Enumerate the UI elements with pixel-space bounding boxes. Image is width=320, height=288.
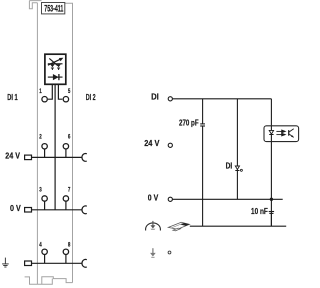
svg-text:6: 6 <box>68 134 70 141</box>
svg-text:DI: DI <box>226 161 233 171</box>
svg-text:24 V: 24 V <box>5 151 20 161</box>
capacitor C1 270pF branch <box>200 99 205 226</box>
DI LED branch <box>236 99 238 200</box>
terminal circle 5 <box>63 97 68 102</box>
0V terminal circle right <box>168 197 172 201</box>
LED symbols inside block <box>48 58 63 65</box>
field supply arrow <box>152 248 154 253</box>
svg-text:5: 5 <box>68 88 70 95</box>
module outline right edge <box>65 3 73 282</box>
jumper contact arc 24V <box>82 153 87 161</box>
svg-text:753-411: 753-411 <box>44 3 63 14</box>
connector box earth <box>25 261 32 266</box>
0V rail <box>31 201 82 210</box>
earth/rail bottom wire <box>190 225 286 227</box>
svg-text:3: 3 <box>39 187 41 194</box>
optocoupler branch <box>270 99 272 226</box>
svg-text:8: 8 <box>68 242 70 249</box>
LED triangles <box>50 64 54 67</box>
svg-text:1: 1 <box>39 88 41 95</box>
svg-text:10 nF: 10 nF <box>251 206 268 216</box>
stem terminal 2 <box>44 149 46 157</box>
connector box 24V <box>25 155 32 160</box>
power jumper contact symbol <box>146 223 161 231</box>
wire stub right <box>58 84 62 99</box>
stem terminal 3 <box>44 201 46 210</box>
stem terminal 7 <box>65 201 67 210</box>
jumper contact arc earth <box>82 259 87 267</box>
small circle marker <box>168 251 171 254</box>
diode in block <box>48 76 63 78</box>
wires from LED block to terminals <box>48 84 62 210</box>
terminal circle 6 <box>63 144 68 149</box>
optocoupler U2 box <box>264 126 299 142</box>
optocoupler phototransistor <box>289 129 294 138</box>
earth symbol <box>2 258 9 267</box>
svg-text:24 V: 24 V <box>144 139 160 149</box>
svg-text:4: 4 <box>39 242 41 249</box>
arrow head on diagonal <box>59 58 62 61</box>
DIN rail symbol <box>168 222 189 231</box>
svg-text:2: 2 <box>39 134 41 141</box>
junction dot 0V/opto <box>270 198 273 201</box>
svg-text:DI 2: DI 2 <box>86 93 96 103</box>
stem terminal 8 <box>65 255 67 264</box>
optocoupler arrows <box>276 130 285 136</box>
jumper contact arc 0V <box>82 206 87 214</box>
stem terminal 4 <box>44 255 46 264</box>
DI terminal circle <box>168 97 172 101</box>
24V terminal circle right <box>168 143 172 147</box>
arrow into contact <box>152 221 154 226</box>
stem terminal 6 <box>65 149 67 157</box>
connector box 0V <box>25 208 32 213</box>
terminal circle 3 <box>42 196 47 201</box>
terminal circle 8 <box>63 249 68 254</box>
svg-text:DI 1: DI 1 <box>7 92 17 103</box>
label box 753-411 <box>42 3 65 14</box>
capacitor C2 10nF <box>269 212 274 227</box>
24V rail <box>31 149 82 157</box>
DI wire <box>173 98 272 100</box>
terminal circle 4 <box>42 249 47 254</box>
wire center vertical <box>54 84 56 210</box>
optocoupler LED <box>270 126 272 142</box>
LED block U1 <box>45 54 66 84</box>
terminal circle 7 <box>63 196 68 201</box>
DI status LED <box>235 166 239 170</box>
svg-text:270 pF: 270 pF <box>179 117 199 127</box>
earth rail <box>31 255 82 264</box>
terminal circle 2 <box>42 144 47 149</box>
terminal circle 1 <box>42 97 47 102</box>
svg-text:0 V: 0 V <box>148 193 159 203</box>
0V wire <box>173 198 283 200</box>
svg-text:DI: DI <box>151 92 159 101</box>
wire stub left <box>48 84 52 99</box>
module outline left edge <box>25 1 73 285</box>
svg-text:7: 7 <box>68 187 70 194</box>
svg-text:0 V: 0 V <box>10 203 21 213</box>
module bottom foot <box>25 277 73 285</box>
